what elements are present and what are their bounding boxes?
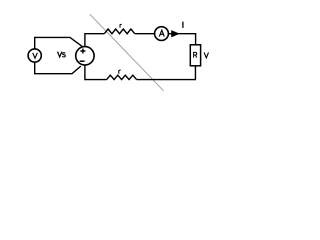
label r (bottom) (119, 70, 121, 74)
label V (load voltage) (204, 53, 208, 58)
voltmeter V1 letter V (33, 53, 38, 58)
voltmeter V1 circle (28, 49, 41, 62)
wire: ammeter to right corner and down (168, 34, 195, 45)
source minus sign (80, 60, 85, 62)
source Vs circle (76, 47, 94, 65)
label r (top) (120, 24, 122, 28)
source plus sign (80, 49, 85, 54)
label Vs (58, 52, 62, 57)
wire: left loop top (35, 37, 82, 48)
current arrow (171, 30, 180, 37)
wire: top rail resistor to ammeter (135, 33, 155, 35)
ammeter A1 circle (155, 27, 169, 41)
wire: left loop bottom (35, 62, 81, 73)
label R (194, 52, 197, 57)
resistor R box (190, 45, 200, 66)
resistor r (bottom) zigzag (107, 75, 137, 79)
ammeter A1 letter A (159, 30, 164, 36)
resistor r (top) zigzag (104, 29, 134, 34)
annotation diagonal line (90, 14, 164, 91)
wire: bottom rail to source bottom stub (85, 65, 107, 79)
wire: R box bottom down to bottom rail (137, 66, 196, 80)
label I (182, 22, 184, 28)
wire: source top stub to top rail (85, 34, 104, 47)
